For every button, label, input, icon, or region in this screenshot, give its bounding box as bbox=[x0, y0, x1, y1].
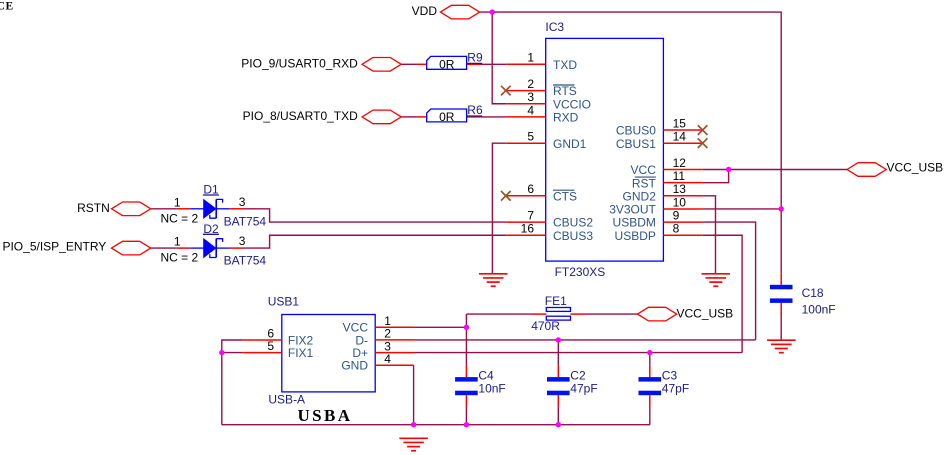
svg-text:PIO_5/ISP_ENTRY: PIO_5/ISP_ENTRY bbox=[2, 239, 106, 253]
capacitor C18 100nF bbox=[770, 273, 836, 316]
wire VCC pin 12 to VCC_USB port bbox=[703, 169, 847, 171]
svg-text:USBDM: USBDM bbox=[613, 216, 656, 230]
svg-text:USB-A: USB-A bbox=[268, 392, 305, 406]
ground (C18) bbox=[767, 340, 796, 352]
IC3 pin 14 CBUS1 bbox=[616, 130, 703, 151]
wire C2 top drop from D- net bbox=[557, 340, 559, 366]
USB1 pin 4 GND bbox=[341, 352, 413, 373]
svg-text:FIX1: FIX1 bbox=[288, 346, 314, 360]
ground (GND1) bbox=[479, 274, 508, 286]
port RSTN bbox=[77, 201, 151, 215]
svg-text:R6: R6 bbox=[467, 103, 483, 117]
port PIO_9/USART0_RXD bbox=[241, 56, 401, 71]
IC3 pin 3 VCCIO bbox=[506, 90, 591, 111]
svg-text:GND2: GND2 bbox=[623, 189, 657, 203]
port PIO_8/USART0_TXD bbox=[243, 109, 402, 124]
wire VCC to RST pin 11 bbox=[703, 170, 729, 183]
wire USBDP pin 8 down to D+ net bbox=[703, 235, 742, 352]
svg-text:9: 9 bbox=[673, 209, 680, 223]
wire D2 cathode to pin 16 (CBUS3) bbox=[243, 235, 507, 248]
svg-text:GND1: GND1 bbox=[553, 137, 587, 151]
capacitor C4 10nF bbox=[455, 366, 506, 407]
IC U-box IC3 FT230XS outline bbox=[546, 38, 664, 261]
svg-text:C2: C2 bbox=[570, 368, 586, 382]
resistor R6 0R bbox=[417, 103, 483, 124]
no-connect X on pin 6 CTS bbox=[501, 191, 511, 201]
IC3 pin 6 CTS bbox=[506, 182, 577, 203]
svg-text:C18: C18 bbox=[802, 286, 824, 300]
wire D1 cathode to pin 7 (CBUS2) bbox=[243, 209, 507, 222]
wire USB GND pin 4 down bbox=[413, 365, 415, 425]
junction C4/ground rail node bbox=[464, 422, 469, 427]
svg-text:3: 3 bbox=[239, 195, 246, 209]
wire bottom ground rail bbox=[222, 424, 650, 426]
no-connect X on pin 15 CBUS0 bbox=[698, 125, 708, 135]
port PIO_5/ISP_ENTRY bbox=[2, 239, 150, 255]
diode D2 BAT754 bbox=[161, 222, 267, 268]
svg-text:R9: R9 bbox=[467, 51, 483, 65]
USB1 net-class label USBA bbox=[298, 406, 353, 425]
IC3 pin 11 RST bbox=[632, 169, 703, 190]
no-connect X on pin 2 RTS bbox=[501, 86, 511, 96]
svg-text:CBUS1: CBUS1 bbox=[616, 137, 656, 151]
IC3 pin 10 3V3OUT bbox=[609, 195, 703, 216]
svg-text:BAT754: BAT754 bbox=[224, 214, 267, 228]
svg-text:NC = 2: NC = 2 bbox=[161, 251, 199, 265]
junction VDD node bbox=[490, 9, 495, 14]
svg-text:47pF: 47pF bbox=[570, 382, 597, 396]
wire FE1 row right to VCC_USB port bbox=[585, 313, 637, 315]
wire PIO_5 port to D2 anode bbox=[151, 247, 177, 249]
wire C18 bottom to ground bbox=[780, 314, 782, 340]
svg-text:CTS: CTS bbox=[553, 189, 577, 203]
svg-text:USBA: USBA bbox=[298, 406, 353, 425]
wire RSTN port to D1 anode bbox=[151, 208, 177, 210]
wire FE1 column vertical (FE1 row through VCC junction down to C4) bbox=[465, 314, 467, 366]
IC3 pin 16 CBUS3 bbox=[506, 222, 593, 243]
svg-text:C3: C3 bbox=[662, 368, 678, 382]
svg-text:13: 13 bbox=[673, 182, 687, 196]
svg-text:VDD: VDD bbox=[412, 4, 438, 18]
svg-text:5: 5 bbox=[527, 130, 534, 144]
IC3 value label FT230XS bbox=[555, 265, 606, 279]
wire C3 bottom to ground rail bbox=[649, 406, 651, 425]
wire FIX2 pin 6 left and down bbox=[222, 340, 243, 425]
wire C4 bottom to ground rail bbox=[465, 406, 467, 425]
junction D+/C3 node bbox=[647, 350, 652, 355]
svg-text:10nF: 10nF bbox=[478, 382, 505, 396]
svg-text:VCC_USB: VCC_USB bbox=[887, 160, 944, 174]
wire R9 to pin 1 (TXD) bbox=[481, 63, 506, 65]
svg-text:GND: GND bbox=[341, 359, 368, 373]
wire FIX1 pin 5 left bbox=[222, 352, 243, 354]
IC3 pin 7 CBUS2 bbox=[506, 209, 593, 230]
USB1 refdes label bbox=[268, 294, 300, 308]
svg-text:USBDP: USBDP bbox=[615, 229, 656, 243]
ground (GND2) bbox=[702, 274, 731, 286]
wire FE1 row left bbox=[466, 313, 531, 315]
svg-text:CBUS2: CBUS2 bbox=[553, 216, 593, 230]
svg-text:5: 5 bbox=[267, 339, 274, 353]
svg-text:3: 3 bbox=[527, 90, 534, 104]
USB1 pin 2 D- bbox=[355, 327, 414, 348]
svg-text:1: 1 bbox=[174, 195, 181, 209]
svg-text:4: 4 bbox=[384, 352, 391, 366]
svg-text:RXD: RXD bbox=[553, 111, 579, 125]
resistor R9 0R bbox=[417, 51, 483, 72]
wire PIO_8 port to R6 bbox=[401, 116, 417, 118]
junction VCC_USB/C4 node bbox=[464, 325, 469, 330]
svg-text:3V3OUT: 3V3OUT bbox=[609, 203, 656, 217]
capacitor C3 47pF bbox=[639, 366, 690, 407]
junction ground rail/earth node bbox=[411, 422, 416, 427]
svg-text:0R: 0R bbox=[439, 110, 455, 124]
IC3 pin 1 TXD bbox=[506, 51, 577, 72]
IC3 refdes label bbox=[545, 20, 564, 34]
IC3 pin 2 RTS bbox=[506, 77, 576, 98]
svg-text:IC3: IC3 bbox=[545, 20, 564, 34]
svg-text:PIO_8/USART0_TXD: PIO_8/USART0_TXD bbox=[243, 109, 358, 123]
wire D- net (USB pin 2 to USBDM) bbox=[415, 339, 756, 341]
wire GND1 pin 5 down to ground bbox=[492, 143, 506, 273]
USB1 pin 3 D+ bbox=[352, 339, 414, 360]
svg-text:100nF: 100nF bbox=[802, 303, 836, 317]
ferrite bead FE1 470R bbox=[531, 294, 586, 333]
junction 3V3OUT/VDD rail node bbox=[779, 206, 784, 211]
svg-text:RSTN: RSTN bbox=[77, 201, 110, 215]
wire R6 to pin 4 (RXD) bbox=[481, 116, 506, 118]
svg-text:CE: CE bbox=[0, 1, 14, 13]
svg-text:7: 7 bbox=[527, 209, 534, 223]
svg-text:12: 12 bbox=[673, 156, 687, 170]
USB1 pin 1 VCC bbox=[343, 314, 415, 335]
IC3 pin 9 USBDM bbox=[613, 209, 703, 230]
svg-text:CBUS0: CBUS0 bbox=[616, 124, 656, 138]
svg-text:47pF: 47pF bbox=[662, 382, 689, 396]
svg-text:14: 14 bbox=[673, 130, 687, 144]
connector USB1 box bbox=[282, 315, 375, 392]
wire C2 bottom to ground rail bbox=[557, 406, 559, 425]
svg-text:1: 1 bbox=[527, 51, 534, 65]
svg-text:CBUS3: CBUS3 bbox=[553, 229, 593, 243]
svg-text:3: 3 bbox=[239, 234, 246, 248]
svg-text:6: 6 bbox=[527, 182, 534, 196]
svg-text:VCC_USB: VCC_USB bbox=[677, 307, 734, 321]
svg-text:2: 2 bbox=[527, 77, 534, 91]
svg-text:FT230XS: FT230XS bbox=[555, 265, 606, 279]
USB1 pin 6 FIX2 bbox=[242, 326, 313, 347]
port VCC_USB (at FE1) bbox=[638, 307, 734, 321]
svg-text:PIO_9/USART0_RXD: PIO_9/USART0_RXD bbox=[241, 56, 358, 70]
ground (USB shield/GND) bbox=[399, 438, 428, 450]
IC3 pin 13 GND2 bbox=[623, 182, 703, 203]
svg-text:RTS: RTS bbox=[553, 84, 577, 98]
port VCC_USB (right) bbox=[847, 160, 943, 176]
svg-text:RST: RST bbox=[632, 176, 657, 190]
svg-text:11: 11 bbox=[673, 169, 686, 183]
IC3 pin 15 CBUS0 bbox=[616, 116, 703, 137]
wire VDD rail: port to top-right corner, down to C18 bbox=[480, 12, 782, 273]
junction VCC/RST node bbox=[726, 167, 731, 172]
IC3 pin 4 RXD bbox=[506, 103, 578, 124]
svg-text:16: 16 bbox=[521, 222, 535, 236]
svg-text:10: 10 bbox=[673, 195, 687, 209]
capacitor C2 47pF bbox=[547, 366, 598, 407]
junction D-/C2 node bbox=[556, 337, 561, 342]
wire C3 top drop from D+ net bbox=[649, 353, 651, 366]
svg-text:VCC: VCC bbox=[631, 163, 657, 177]
svg-text:C4: C4 bbox=[478, 368, 494, 382]
sheet title text (clipped) 'CE' bbox=[0, 1, 14, 13]
power port VDD bbox=[412, 4, 480, 19]
svg-text:USB1: USB1 bbox=[268, 294, 300, 308]
IC3 pin 5 GND1 bbox=[506, 130, 586, 151]
wire USBDM pin 9 down to D- net bbox=[703, 222, 756, 340]
wire D+ net (USB pin 3 to USBDP) bbox=[415, 352, 742, 354]
USB1 value label USB-A bbox=[268, 392, 305, 406]
svg-text:NC = 2: NC = 2 bbox=[161, 211, 199, 225]
svg-text:TXD: TXD bbox=[553, 58, 577, 72]
wire VCC_USB: USB pin 1 to FE1 column bbox=[415, 326, 467, 328]
svg-text:VCCIO: VCCIO bbox=[553, 97, 591, 111]
junction FIX1/FIX2 node bbox=[219, 350, 224, 355]
svg-text:470R: 470R bbox=[531, 319, 560, 333]
junction C2/ground rail node bbox=[556, 422, 561, 427]
svg-text:15: 15 bbox=[673, 116, 687, 130]
IC3 pin 12 VCC bbox=[631, 156, 703, 177]
IC3 pin 8 USBDP bbox=[615, 222, 703, 243]
USB1 pin 5 FIX1 bbox=[242, 339, 313, 360]
svg-text:1: 1 bbox=[174, 235, 181, 249]
svg-text:8: 8 bbox=[673, 222, 680, 236]
svg-text:BAT754: BAT754 bbox=[224, 254, 267, 268]
diode D1 BAT754 bbox=[161, 183, 267, 229]
svg-text:FE1: FE1 bbox=[545, 294, 567, 308]
wire PIO_9 port to R9 bbox=[401, 63, 417, 65]
wire VDD to VCCIO pin 3 bbox=[492, 12, 506, 104]
svg-text:4: 4 bbox=[527, 103, 534, 117]
no-connect X on pin 14 CBUS1 bbox=[698, 138, 708, 148]
wire GND2 pin 13 down to ground bbox=[703, 196, 716, 274]
svg-text:0R: 0R bbox=[439, 58, 455, 72]
wire 3V3OUT pin 10 to VDD rail bbox=[703, 208, 781, 210]
